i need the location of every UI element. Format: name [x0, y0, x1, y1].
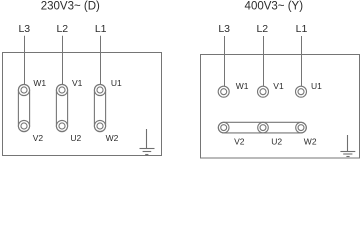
svg-text:W1: W1: [33, 78, 46, 88]
svg-text:W2: W2: [304, 136, 317, 146]
svg-text:W2: W2: [106, 133, 119, 143]
svg-text:V2: V2: [33, 133, 44, 143]
svg-text:V1: V1: [273, 81, 284, 91]
svg-text:W1: W1: [236, 81, 249, 91]
svg-text:U1: U1: [311, 81, 322, 91]
svg-text:U1: U1: [111, 78, 122, 88]
svg-text:L2: L2: [56, 23, 68, 35]
svg-text:230V3~ (D): 230V3~ (D): [41, 1, 100, 13]
svg-text:L2: L2: [256, 23, 268, 35]
svg-text:400V3~ (Y): 400V3~ (Y): [245, 1, 304, 13]
svg-text:L3: L3: [218, 23, 230, 35]
svg-text:U2: U2: [70, 133, 81, 143]
svg-text:L1: L1: [296, 23, 308, 35]
svg-text:U2: U2: [271, 136, 282, 146]
svg-text:L3: L3: [18, 23, 30, 35]
svg-text:L1: L1: [95, 23, 107, 35]
svg-text:V1: V1: [72, 78, 83, 88]
svg-text:V2: V2: [234, 136, 245, 146]
